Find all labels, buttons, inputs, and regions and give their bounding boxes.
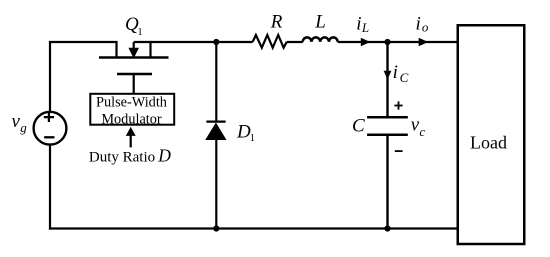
svg-text:o: o [422, 19, 429, 34]
svg-text:D: D [157, 145, 171, 165]
current arrow iL on wire [361, 38, 371, 47]
minus sign below capacitor [395, 150, 403, 152]
current arrow iC (points down) [384, 71, 392, 80]
svg-text:D: D [236, 122, 251, 143]
inductor L [303, 37, 338, 41]
svg-text:Pulse-Width: Pulse-Width [96, 95, 167, 111]
wire inductor to load box [338, 41, 457, 43]
wire left rail upper (source to top-left corner) [49, 42, 51, 112]
svg-text:i: i [416, 14, 421, 35]
svg-text:i: i [356, 14, 361, 35]
node junction dot (diode tap, bottom) [213, 225, 219, 231]
left stub [115, 41, 117, 58]
diode D1 triangle (anode, pointing up) [205, 123, 226, 141]
diode branch wire lower [215, 139, 217, 230]
node junction dot (diode tap, top) [213, 39, 219, 45]
minus sign in source [44, 136, 54, 138]
duty ratio input arrow (points up into modulator) [130, 135, 132, 148]
voltage source vg [34, 112, 67, 145]
diode D1 branch wire upper [215, 42, 217, 122]
pulse-width modulator box [90, 94, 174, 125]
plus sign in source [44, 112, 54, 122]
gate bar [117, 73, 152, 76]
svg-text:L: L [314, 12, 326, 33]
plus sign above capacitor [394, 101, 402, 109]
svg-text:R: R [270, 12, 283, 33]
svg-text:C: C [400, 70, 409, 85]
node junction dot (capacitor tap, top) [384, 39, 390, 45]
svg-text:1: 1 [250, 133, 255, 144]
svg-text:Duty Ratio: Duty Ratio [89, 150, 155, 166]
capacitor branch wire upper [386, 42, 388, 117]
diode D1 cathode bar [206, 120, 225, 122]
svg-text:Modulator: Modulator [101, 111, 162, 127]
wire top middle (arrow top over right stub to resistor) [134, 41, 253, 43]
transistor Q1 (MOSFET) [99, 41, 169, 94]
svg-text:1: 1 [137, 27, 142, 38]
load box [458, 25, 525, 244]
svg-text:Load: Load [470, 133, 507, 153]
capacitor branch wire lower [386, 135, 388, 230]
svg-text:C: C [352, 115, 365, 136]
wire left rail lower (source to bottom rail) [49, 145, 51, 230]
svg-text:g: g [20, 120, 27, 135]
capacitor C top plate [367, 116, 408, 119]
wire between R and L [287, 41, 303, 43]
node junction dot (capacitor tap, bottom) [384, 225, 390, 231]
bottom rail wire [49, 227, 458, 229]
arrow shaft from top wire [133, 42, 135, 50]
resistor R [253, 35, 287, 48]
wire top-left horizontal (to MOSFET drain) [49, 41, 117, 43]
current arrow io on wire [419, 38, 429, 47]
svg-text:L: L [361, 20, 369, 35]
svg-text:v: v [411, 115, 420, 136]
svg-text:v: v [12, 111, 21, 132]
arrowhead pointing down to channel [129, 48, 138, 57]
capacitor C bottom plate [367, 133, 408, 136]
svg-text:c: c [419, 124, 425, 139]
right stub [149, 41, 151, 58]
channel bar [99, 56, 169, 59]
svg-text:i: i [393, 62, 398, 83]
gate lead to modulator [133, 74, 135, 94]
